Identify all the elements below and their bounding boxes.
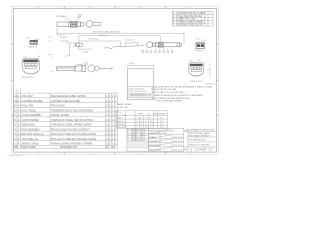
svg-text:8.0±0.3: 8.0±0.3 — [66, 43, 72, 45]
svg-text:2019.11.02: 2019.11.02 — [173, 145, 182, 147]
svg-text:DWG NO: LX-1908-0012: DWG NO: LX-1908-0012 — [189, 145, 210, 147]
svg-text:DESCRIPTION: DESCRIPTION — [60, 146, 77, 149]
svg-text:ECN003: ECN003 — [132, 140, 139, 142]
svg-text:SCALE 4/1: SCALE 4/1 — [194, 49, 205, 52]
svg-text:LABEL ATTACHED AT BOTH ENDS OF: LABEL ATTACHED AT BOTH ENDS OF CABLE ASS… — [154, 94, 204, 97]
svg-text:LATCH FRAME: LATCH FRAME — [21, 119, 39, 122]
svg-text:(25.0±3.0): (25.0±3.0) — [125, 39, 135, 41]
svg-text:CONFIDENTIAL DOC: CONFIDENTIAL DOC — [7, 155, 25, 158]
svg-text:PCB ASSEMBLY: PCB ASSEMBLY — [21, 128, 40, 131]
svg-text:2019.11.02: 2019.11.02 — [173, 149, 182, 151]
svg-text:LIMIT: LIMIT — [138, 114, 144, 116]
svg-text:PART NAME: PART NAME — [21, 146, 36, 149]
svg-text:BOTTOM SHELL(2): BOTTOM SHELL(2) — [21, 133, 43, 136]
svg-text:THIRD ANGLE PROJECTION: THIRD ANGLE PROJECTION — [149, 129, 175, 132]
svg-text:PULL TAB: PULL TAB — [21, 105, 33, 108]
svg-text:TOP SHELL(2): TOP SHELL(2) — [21, 138, 38, 141]
svg-text:PVC BLACK: PVC BLACK — [51, 105, 65, 108]
svg-text:DRAWN: DRAWN — [149, 136, 157, 139]
svg-text:PULL TAB(2): PULL TAB(2) — [21, 109, 36, 112]
svg-text:4. ALL DIMENSIONS REFERENCE ON: 4. ALL DIMENSIONS REFERENCE ONLY — [152, 97, 191, 100]
svg-text:(75.5): (75.5) — [83, 51, 89, 53]
svg-text:CBL-ASSY: CBL-ASSY — [21, 95, 34, 98]
svg-text:◐: ◐ — [189, 149, 190, 151]
svg-text:NO: NO — [14, 146, 18, 149]
svg-text:SCALE 1/1: SCALE 1/1 — [197, 148, 206, 151]
svg-text:(30.0): (30.0) — [129, 63, 135, 65]
svg-text:COPPER TUBE BUILDER: COPPER TUBE BUILDER — [51, 100, 81, 103]
svg-text:(170.0±5.0): (170.0±5.0) — [88, 39, 99, 41]
svg-text:LABEL P/N + S/N: LABEL P/N + S/N — [177, 18, 195, 21]
svg-text:2019.11.02: 2019.11.02 — [173, 137, 182, 139]
svg-text:315-1000: 315-1000 — [117, 127, 126, 129]
svg-text:SEE RELEASE LABEL NOTES: SEE RELEASE LABEL NOTES — [51, 95, 86, 98]
svg-text:SCALE 4/1: SCALE 4/1 — [28, 46, 39, 49]
svg-text:TWINAX CABLE 30AWG: TWINAX CABLE 30AWG — [177, 21, 203, 24]
svg-text:95.0±2.0: 95.0±2.0 — [60, 37, 69, 39]
svg-text:RELEASED: RELEASED — [149, 148, 160, 151]
svg-text:R: R — [112, 146, 114, 149]
svg-text:ASSY 30AWG PASSIVE: ASSY 30AWG PASSIVE — [189, 134, 210, 137]
svg-text:LUXSHARE TECHNOLOGIES: LUXSHARE TECHNOLOGIES — [189, 129, 215, 132]
svg-text:3. PULL TAB COLOR: BLUE 2935C: 3. PULL TAB COLOR: BLUE 2935C — [152, 91, 185, 94]
svg-text:THERMOPLASTIC POLYURETHANE: THERMOPLASTIC POLYURETHANE — [51, 109, 94, 112]
svg-text:STAINLESS STEEL TAB W/ KAPTON: STAINLESS STEEL TAB W/ KAPTON — [51, 119, 93, 122]
svg-text:1/1: 1/1 — [210, 149, 213, 151]
svg-text:ZINC ALLOY DIECAST PLATED NIC: ZINC ALLOY DIECAST PLATED NICKEL — [51, 133, 97, 136]
svg-text:HOUSING ZINC ALLOY: HOUSING ZINC ALLOY — [177, 24, 202, 27]
svg-text:SHIELDING: SHIELDING — [21, 124, 35, 127]
svg-text:CHECKED: CHECKED — [149, 141, 159, 143]
svg-text:S/N: XXXXXXXXXX: S/N: XXXXXXXXXX — [130, 91, 148, 93]
svg-text:SIZE: SIZE — [184, 130, 189, 132]
svg-text:P/N LABEL: P/N LABEL — [56, 15, 68, 18]
svg-text:ZINC ALLOY DIECAST PLATED NICK: ZINC ALLOY DIECAST PLATED NICKEL — [51, 138, 97, 141]
svg-text:VIEW B (2/1): VIEW B (2/1) — [190, 81, 202, 83]
svg-text:(SCALE 2:1): (SCALE 2:1) — [205, 82, 216, 85]
svg-text:2021: 2021 — [141, 140, 145, 142]
svg-text:CONNECTOR PLUG ASSY: CONNECTOR PLUG ASSY — [177, 12, 206, 15]
svg-text:UNIT: mm: UNIT: mm — [119, 107, 129, 109]
svg-text:UNLESS SPECIFIED: UNLESS SPECIFIED — [149, 133, 168, 135]
svg-text:ROHS COMPLIANT GREEN: ROHS COMPLIANT GREEN — [156, 100, 183, 103]
svg-text:P/N: SF28-A30-05M: P/N: SF28-A30-05M — [189, 139, 206, 142]
svg-text:LABEL DETAIL: LABEL DETAIL — [117, 103, 133, 106]
svg-text:NICKEL SILVER: NICKEL SILVER — [51, 114, 70, 117]
svg-text:VIEW A (2/1): VIEW A (2/1) — [22, 76, 34, 79]
svg-text:16.6±0.3: 16.6±0.3 — [57, 34, 66, 36]
svg-text:BIDIRECTIONAL TAB SIDE: BIDIRECTIONAL TAB SIDE — [93, 30, 120, 33]
svg-text:30-120: 30-120 — [117, 121, 124, 123]
svg-text:FR4 W/ GOLD PLATED CONTACT: FR4 W/ GOLD PLATED CONTACT — [51, 128, 91, 131]
svg-text:APPROVED: APPROVED — [149, 144, 160, 147]
svg-text:2. ELECTRICAL 100 OHM: 2. ELECTRICAL 100 OHM — [152, 88, 176, 91]
svg-text:2019.11.02: 2019.11.02 — [173, 141, 182, 143]
svg-text:PULL TAB ASSY BLUE: PULL TAB ASSY BLUE — [177, 15, 201, 18]
svg-text:COPPER SOLDER: COPPER SOLDER — [21, 100, 43, 103]
svg-text:Q: Q — [106, 146, 108, 149]
svg-text:120-315: 120-315 — [117, 124, 125, 126]
svg-text:1. BUILD METHOD: SFP28 CABLE A: 1. BUILD METHOD: SFP28 CABLE ASSEMBLY, 3… — [152, 85, 213, 88]
svg-text:STAINLESS STEEL SPRING SHEET: STAINLESS STEEL SPRING SHEET — [51, 124, 93, 127]
svg-text:FINISH: FINISH — [159, 114, 166, 116]
svg-text:4.4: 4.4 — [49, 41, 52, 43]
svg-text:A4: A4 — [184, 148, 186, 151]
svg-text:CAGE ASSEMBLY: CAGE ASSEMBLY — [21, 114, 42, 117]
svg-text:7.3: 7.3 — [49, 37, 52, 39]
